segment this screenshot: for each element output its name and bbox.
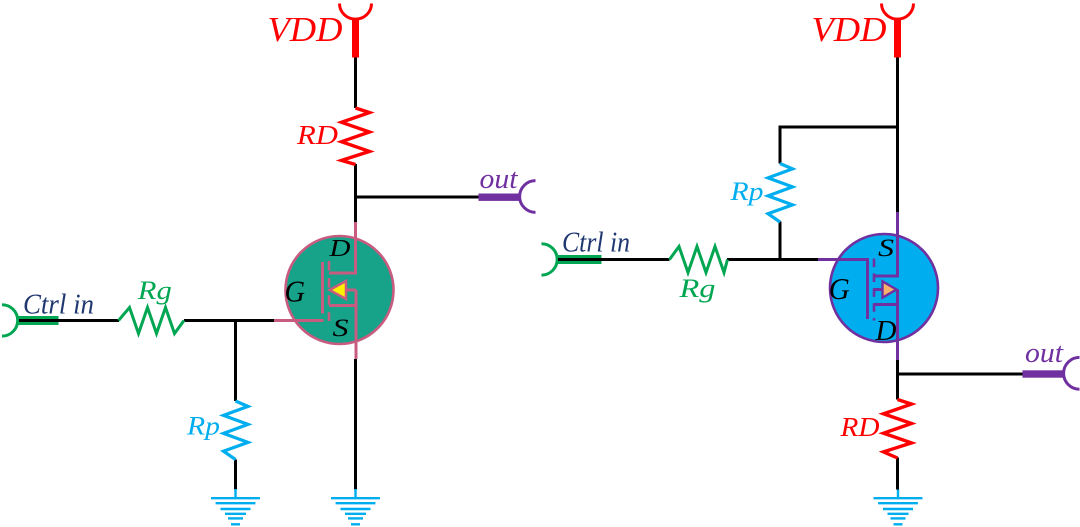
svg-text:Ctrl in: Ctrl in — [23, 289, 94, 321]
svg-text:Rp: Rp — [729, 177, 763, 206]
svg-text:S: S — [333, 315, 350, 342]
svg-text:Rg: Rg — [678, 274, 715, 303]
svg-text:Rg: Rg — [137, 276, 172, 305]
svg-text:G: G — [829, 271, 850, 306]
svg-text:RD: RD — [296, 120, 339, 150]
svg-text:out: out — [480, 164, 519, 195]
svg-text:VDD: VDD — [268, 10, 343, 49]
svg-text:D: D — [328, 236, 350, 262]
svg-text:VDD: VDD — [812, 10, 887, 49]
svg-text:D: D — [874, 316, 896, 347]
svg-text:Rp: Rp — [186, 412, 220, 441]
svg-text:out: out — [1025, 338, 1064, 369]
svg-text:S: S — [878, 235, 895, 262]
svg-text:G: G — [285, 274, 306, 309]
svg-text:RD: RD — [839, 412, 880, 442]
svg-text:Ctrl in: Ctrl in — [562, 227, 630, 259]
